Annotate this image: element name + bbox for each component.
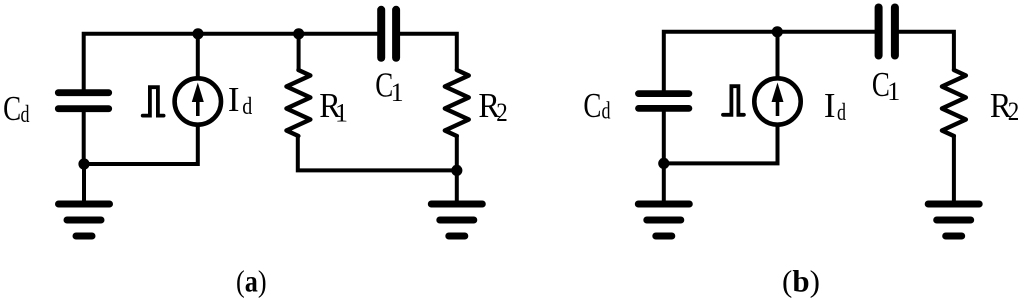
capacitor C1 (a) <box>381 10 396 58</box>
node: (a) bottom-left junction <box>78 158 89 169</box>
ground (b) left <box>638 204 689 236</box>
wire: (b) stub from top rail down to current source top <box>776 32 780 80</box>
ground (a) left <box>59 204 110 236</box>
pulse symbol (a) <box>143 87 164 115</box>
wire: (b) R2 bottom down to ground <box>952 135 956 205</box>
svg-text:C: C <box>583 86 601 125</box>
wire: (b) C1 right plate to top-right corner down to R2 top <box>899 32 954 71</box>
node: (b) bottom junction <box>658 158 669 169</box>
capacitor C1 (b) <box>879 8 895 56</box>
current source U1 (a): arrow <box>192 83 204 117</box>
svg-text:I: I <box>228 80 240 119</box>
svg-text:d: d <box>242 94 252 120</box>
current source U2 (b): arrow <box>772 83 784 117</box>
node: (a) top rail / current source junction <box>192 28 203 39</box>
wire: (a) stub from top rail down to current source top <box>196 34 200 80</box>
wire: (a) stub from top rail down to R1 top <box>297 34 301 71</box>
pulse symbol (b) <box>723 86 744 115</box>
resistor R2 (a) <box>445 70 469 136</box>
svg-text:d: d <box>602 99 611 125</box>
wire: (a) R1 bottom down and across to bottom-right node <box>298 135 457 171</box>
svg-text:C: C <box>3 89 21 128</box>
wire: (a) R2 bottom down to bottom-right node <box>455 135 459 171</box>
ground (a) right <box>431 204 482 236</box>
current source U2 (b): circle <box>754 78 800 124</box>
svg-text:d: d <box>21 102 30 128</box>
svg-text:d: d <box>837 100 846 126</box>
capacitor Cd (a) <box>58 93 108 109</box>
svg-text:(a): (a) <box>236 264 267 299</box>
svg-text:1: 1 <box>391 78 404 107</box>
wire: (a) C1 right plate to top-right corner down to R2 top <box>400 34 457 71</box>
wire: (a) bottom-left node to current source bottom <box>84 124 198 164</box>
resistor R1 (a) <box>286 70 310 136</box>
node: (b) top rail / current source junction <box>772 26 783 37</box>
capacitor Cd (b) <box>639 94 689 109</box>
resistor R2 (b) <box>942 70 966 136</box>
wire: (a) left rail from Cd top plate up and top rail to C1 left plate <box>84 34 378 91</box>
wire: (b) Cd bottom plate down to bottom node <box>662 112 666 164</box>
svg-text:I: I <box>824 86 836 125</box>
node: (a) top rail / R1 junction <box>293 28 304 39</box>
wire: (b) bottom node down to ground <box>662 163 666 204</box>
wire: (b) bottom node to current source bottom <box>664 124 778 163</box>
current source U1 (a): circle <box>175 78 221 124</box>
wire: (a) Cd bottom plate down to bottom-left node <box>82 112 86 165</box>
svg-text:2: 2 <box>1008 97 1020 126</box>
wire: (a) bottom-left node down to ground <box>82 164 86 204</box>
wire: (b) left rail from Cd top plate up and top rail to C1 left plate <box>664 32 875 91</box>
svg-text:1: 1 <box>335 99 348 128</box>
ground (b) right <box>928 204 979 236</box>
svg-text:1: 1 <box>887 77 900 106</box>
wire: (a) bottom-right node down to ground <box>455 170 459 204</box>
svg-text:2: 2 <box>496 98 508 127</box>
svg-text:(b): (b) <box>782 264 820 299</box>
node: (a) bottom-right junction <box>451 165 462 176</box>
